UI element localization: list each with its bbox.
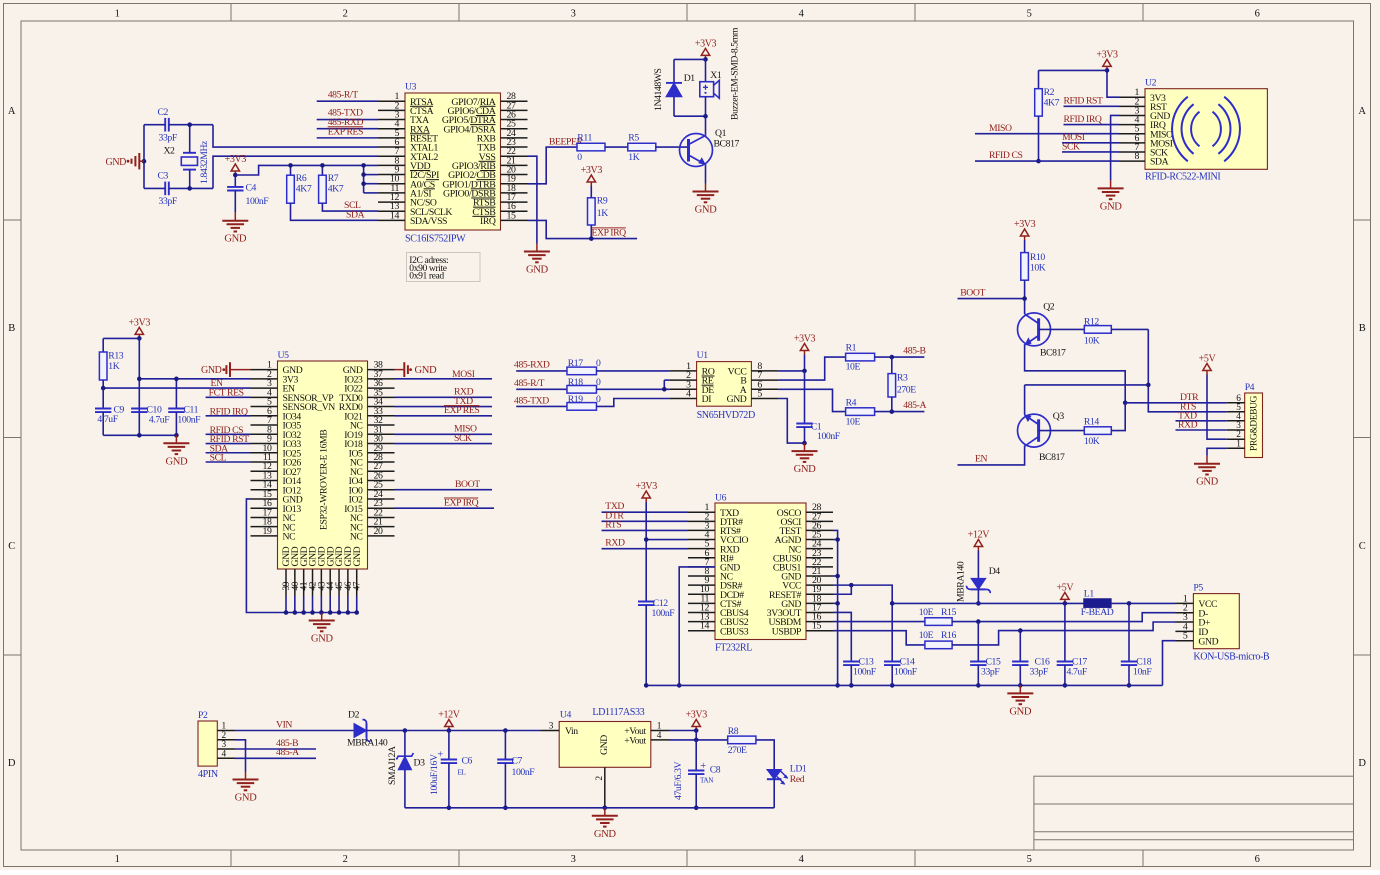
node bottom pin [310,610,315,615]
node C7 bottom [503,806,508,811]
P4 pins 6-1 [1227,402,1245,404]
wire RXD to P4 pin3 [1176,429,1227,431]
wire U5 bottom pin drop [294,596,296,613]
node bottom pin [354,610,359,615]
svg-text:1: 1 [115,854,120,865]
node D4 rail [976,601,981,606]
node bottom pin [337,610,342,615]
U4 pin4 +Vout [651,739,669,741]
wire RFID_IRQ to U5 pin6 [206,415,251,417]
svg-text:100nF: 100nF [894,667,918,678]
svg-text:Q2: Q2 [1043,302,1055,313]
svg-text:270E: 270E [728,745,747,756]
svg-text:VIN: VIN [276,719,292,730]
node D3 top [403,728,408,733]
wire SCK from U5 pin30 [395,443,493,445]
svg-text:485-R/T: 485-R/T [328,89,359,100]
svg-text:0x91 read: 0x91 read [409,271,444,282]
svg-text:RFID IRQ: RFID IRQ [1064,114,1102,125]
svg-text:RTS: RTS [605,519,621,530]
power +12V at C6 [448,727,450,731]
svg-text:15: 15 [812,621,821,632]
svg-text:GND: GND [695,205,718,216]
svg-text:+3V3: +3V3 [794,334,816,345]
wire R5 to Q1 base [655,146,688,148]
svg-text:10E: 10E [846,417,861,428]
power +3V3 at R10 [1024,236,1026,240]
svg-text:Q3: Q3 [1053,411,1065,422]
wire P5 GND pin5 to bus [1163,641,1176,686]
svg-text:C8: C8 [710,765,721,776]
svg-text:R6: R6 [296,173,307,184]
wire R4 to 485-A [875,411,925,413]
wire 485-RXD to U3 pin4 [317,128,378,130]
svg-text:U5: U5 [278,350,290,361]
wire FCT_RES to U5 pin4 [206,396,251,398]
svg-text:100nF: 100nF [177,414,201,425]
wire top rail crystal [144,124,165,126]
U5 bottom pins 39-47 GND [285,569,287,596]
wire P4 pin1 to ground [1207,448,1227,455]
capacitor C3 [164,182,166,196]
svg-text:47: 47 [353,581,363,590]
node C7 top [503,728,508,733]
wire U6 GND pin7 drop [679,567,715,686]
svg-text:10E: 10E [919,630,934,641]
ground below C1 [804,443,806,451]
svg-text:BC817: BC817 [1039,452,1065,463]
node C8 bottom [694,806,699,811]
svg-text:BC817: BC817 [714,138,740,149]
svg-text:2: 2 [343,9,348,20]
svg-text:10K: 10K [1030,263,1046,274]
svg-text:SMAJ12A: SMAJ12A [387,746,398,785]
resistor R18 0 [567,386,597,394]
wire bottom rail crystal [144,187,165,189]
svg-text:GND: GND [526,265,549,276]
wire RFID_CS to U5 pin8 [206,433,251,435]
ground below U3 VSS [536,244,538,252]
svg-text:R5: R5 [628,132,639,143]
power +3V3 at X1 [705,55,707,59]
svg-text:EXP RES: EXP RES [444,405,479,416]
svg-text:BC817: BC817 [1040,348,1066,359]
resistor R13 1K [102,338,104,352]
wire X1 to Q1 collector [705,116,707,134]
svg-text:10K: 10K [1084,436,1100,447]
svg-text:P5: P5 [1193,583,1203,594]
resistor R7 4K7 [321,165,323,176]
svg-text:EXP IRQ: EXP IRQ [592,227,627,238]
svg-text:NC: NC [283,532,296,543]
svg-text:1.8432MHz: 1.8432MHz [199,140,210,184]
wire 485-A stub [235,757,316,759]
wire EXP_RES from U5 pin33 [395,415,493,417]
transistor Q2 BC817 [1018,313,1051,346]
svg-text:10E: 10E [846,362,861,373]
svg-text:100nF: 100nF [853,667,877,678]
wire VDD bus to pins 9-11 [363,165,365,193]
svg-text:33pF: 33pF [159,196,178,207]
svg-text:D1: D1 [684,73,696,84]
svg-text:GND: GND [1100,201,1123,212]
svg-text:0: 0 [577,152,582,163]
node C12 bus [644,683,649,688]
svg-text:R10: R10 [1030,252,1046,263]
IC U4 LD1117AS33 body [559,722,651,768]
capacitor C1 100nF [804,371,806,424]
svg-text:R19: R19 [568,394,584,405]
wire MOSI from U5 pin37 [395,378,493,380]
wire +3V3 top rail to R13 [103,337,139,339]
svg-text:R15: R15 [941,607,957,618]
svg-text:EXP RES: EXP RES [328,126,363,137]
node bottom pin [328,610,333,615]
wire U3 VSS pin22 to ground [528,156,537,243]
svg-text:+12V: +12V [968,530,990,541]
wire U4 pin1 to +3V3 [669,730,696,732]
wire U1 VCC to +3V3 [778,370,804,372]
svg-text:100nF: 100nF [817,431,841,442]
connector P4 PRG&DEBUG body [1245,393,1263,458]
wire BOOT [958,298,1025,300]
node VDD tap [361,163,366,168]
svg-text:PRG&DEBUG: PRG&DEBUG [1250,395,1260,451]
svg-text:C7: C7 [512,756,523,767]
node C11 top [174,377,179,382]
node out pin4 [694,738,699,743]
wire bypass ground rail [103,434,176,436]
wire Q1 emitter to ground [705,166,707,184]
wire U2 GND pin3 [1111,115,1119,180]
node R13 EN [101,386,106,391]
wire crystal vertical [189,125,191,153]
node C11 bottom [174,433,179,438]
svg-text:1: 1 [115,9,120,20]
wire +5V to P4 pin2 [1207,375,1227,440]
svg-text:C4: C4 [246,183,257,194]
wire U5 bottom GND bus [286,612,357,614]
wire R16 to P5 D+ [952,622,1175,645]
power +3V3 at U1 VCC [804,351,806,355]
node U1 VCC [802,369,807,374]
capacitor C10 4.7uF [131,408,147,410]
svg-text:R8: R8 [728,726,739,737]
U1 right pins 8-5 [751,370,778,372]
svg-text:100nF: 100nF [246,196,270,207]
wire U5 bottom pin drop [347,596,349,613]
capacitor C4 [234,175,236,187]
svg-text:+3V3: +3V3 [225,154,247,165]
wire R19 to U1 pin4 [596,399,669,407]
svg-text:C: C [1359,541,1366,552]
wire U5 pin15 GND to bottom bus [246,499,286,613]
node R3 bottom [890,409,895,414]
wire 485-B stub [235,748,316,750]
node GND18 [835,601,840,606]
P2 pins 1-4 [217,730,235,732]
wire XTAL1 from crystal to U3 pin6 [213,125,378,147]
U4 pin3 Vin [541,730,560,732]
wire SCL to U5 pin11 [206,461,251,463]
svg-text:A: A [1358,106,1366,117]
svg-text:10E: 10E [919,607,934,618]
wire buzzer top rail [674,58,706,60]
svg-text:L1: L1 [1084,589,1095,600]
node R6 top [288,163,293,168]
wire P2 pin2 to ground [235,740,246,772]
svg-text:LD1117AS33: LD1117AS33 [592,707,644,718]
node C6 bottom [447,806,452,811]
wire TXD to P4 pin4 [1176,420,1227,422]
capacitor C6 100uF EL [448,731,450,760]
buzzer X1 [705,59,707,81]
node +3V3 C4 [233,173,238,178]
svg-text:X1: X1 [710,70,722,81]
svg-text:5: 5 [1027,9,1032,20]
resistor R4 10E [846,408,875,416]
wire U5 bottom pin drop [303,596,305,613]
svg-text:D2: D2 [348,710,360,721]
node crystal bottom [187,186,192,191]
wire GND18 tap [833,602,838,604]
svg-text:R18: R18 [568,377,584,388]
diode D1 1N4148WS [673,59,675,83]
svg-text:485-TXD: 485-TXD [514,396,549,407]
wire MISO to U2 pin5 [975,133,1119,135]
wire U1 A to R4 [778,389,845,411]
svg-text:RFID-RC522-MINI: RFID-RC522-MINI [1145,172,1220,183]
svg-text:R14: R14 [1084,417,1100,428]
ground below Q1 [705,184,707,192]
wire SCK to U2 pin7 [1062,151,1119,153]
wire Q3 collector line [1025,384,1149,386]
node C15 top [976,619,981,624]
node gnd riser bus [835,683,840,688]
node crystal gnd [142,159,147,164]
svg-text:+Vout: +Vout [624,736,646,747]
wire +3V3 stem U1 [804,355,806,371]
node +3V3 R13 [137,336,142,341]
svg-text:RXD: RXD [605,538,625,549]
U1 left pins 1-4 [670,370,697,372]
wire 485-TXD to R19 [516,405,567,407]
node X1 bottom [703,114,708,119]
svg-text:4: 4 [657,731,662,741]
svg-text:1N4148WS: 1N4148WS [653,68,664,111]
wire U5 bottom pin drop [329,596,331,613]
svg-text:5: 5 [1183,631,1188,642]
svg-text:GND: GND [599,735,610,755]
svg-text:1K: 1K [628,152,639,163]
svg-text:U1: U1 [697,350,709,361]
svg-text:EN: EN [975,454,988,465]
svg-text:100nF: 100nF [512,767,536,778]
U2 pins 1-8 [1119,96,1145,98]
svg-text:+12V: +12V [438,710,460,721]
wire RFID_IRQ to U2 pin4 [1064,124,1120,126]
connector P2 4PIN body [198,721,217,766]
wire U3 IRQ pin15 to EXP_IRQ [528,220,638,238]
svg-text:3: 3 [571,854,576,865]
svg-text:4.7uF: 4.7uF [149,414,170,425]
wire RESET# tie to VCC [833,585,851,594]
svg-text:C: C [8,541,15,552]
wire 485-TXD to U3 pin3 [317,119,378,121]
svg-text:R17: R17 [568,358,584,369]
svg-text:485-A: 485-A [276,747,299,758]
svg-text:+3V3: +3V3 [686,710,708,721]
wire RFID_RST to U5 pin9 [206,443,251,445]
svg-text:SN65HVD72D: SN65HVD72D [697,410,755,421]
svg-text:0: 0 [596,377,601,388]
wire +3V3 to VDD [235,165,378,175]
ground below U4 [604,808,606,816]
power +5V at P4 [1206,371,1208,375]
capacitor C8 47uF TAN [688,770,704,772]
inductor L1 F-BEAD [1084,599,1111,608]
svg-text:LD1: LD1 [790,763,807,774]
node bottom pin [319,610,324,615]
wire +3V3 down to C8 [695,731,697,771]
wire 485-R/T to R18 [516,388,567,390]
diode D4 MBRA140 [977,551,979,579]
capacitor C2 [164,118,166,132]
svg-text:U3: U3 [405,82,417,93]
svg-text:SDA: SDA [346,209,365,220]
svg-text:SCK: SCK [454,433,472,444]
svg-text:4.7uF: 4.7uF [97,414,118,425]
U4 pin1 +Vout [651,730,669,732]
wire 3V3 to U5 pin2 [139,378,250,380]
node AGND [835,537,840,542]
node C18 rail [1127,601,1132,606]
wire buzzer bottom rail [674,115,706,117]
wire +3V3 to U2 pin1 [1107,70,1119,97]
svg-text:6: 6 [1255,854,1260,865]
svg-text:GND: GND [106,157,127,168]
power +3V3 at U4 out [695,727,697,731]
svg-text:EL: EL [458,769,466,777]
svg-text:C6: C6 [462,756,473,767]
wire TXD to U6 pin1 [602,511,689,513]
power-bar GND at U5 pin38 [395,369,405,371]
svg-text:2: 2 [595,776,605,781]
wire AGND tap [833,539,838,541]
svg-text:33pF: 33pF [159,133,178,144]
svg-text:NC: NC [350,532,363,543]
wire Q3 emitter to EN [958,447,1025,465]
resistor R2 4K7 [1038,70,1040,88]
svg-text:RFID RST: RFID RST [1064,96,1104,107]
svg-text:SDA/VSS: SDA/VSS [410,216,447,227]
svg-text:R16: R16 [941,630,957,641]
wire R14 to DTR net [1111,403,1125,431]
capacitor C9 4.7uF [102,388,104,408]
svg-text:RFID CS: RFID CS [989,150,1023,161]
node C10 bottom [137,433,142,438]
node U1 GND [802,441,807,446]
wire BOOT from U5 pin25 [395,489,493,491]
node C13 bus [849,683,854,688]
wire RTS riser [1148,329,1226,411]
resistor R11 0 [577,143,605,151]
svg-text:5: 5 [1027,854,1032,865]
capacitor C13 100nF on 3V3OUT [833,612,851,661]
U3 left pins 1-14 [378,100,405,102]
wire R2 top rail [1039,69,1108,71]
svg-text:33pF: 33pF [981,667,1000,678]
wire DTR to U6 pin2 [602,520,689,522]
wire RFID_CS to U2 pin8 [975,160,1119,162]
node C17 bus [1063,683,1068,688]
power +5V at rail [1064,599,1066,603]
resistor R15 10E [925,618,952,626]
connector P5 KON-USB-micro-B body [1193,594,1239,649]
svg-text:GND: GND [235,793,258,804]
diode D2 MBRA140 [354,724,367,738]
svg-text:B: B [1359,323,1366,334]
node VCCIO [644,537,649,542]
wire BEEPER riser from U3 pin19 [528,147,578,184]
wire U5 bottom pin drop [320,596,322,613]
node R2 rail [1105,68,1110,73]
svg-text:4K7: 4K7 [1044,98,1060,109]
wire RXD from U5 pin35 [395,396,493,398]
wire R18 to U1 pin3 and pin2 [596,388,669,390]
svg-text:GND: GND [1196,477,1219,488]
wire USBDP from U6 pin15 [833,631,925,645]
node +5V C17 [1063,601,1068,606]
svg-text:RXD: RXD [1178,420,1198,431]
U4 pin2 GND stub [604,767,606,808]
ground below P4 [1206,456,1208,464]
svg-text:4.7uF: 4.7uF [1067,667,1088,678]
wire +5V rail [892,602,1084,604]
svg-text:BOOT: BOOT [960,287,985,298]
IC U5 ESP32-WROVER-E body [278,361,368,569]
svg-text:+3V3: +3V3 [1096,49,1118,60]
capacitor C7 100nF [504,731,506,760]
node +3V3 out [694,728,699,733]
node bottom pin [293,610,298,615]
wire VIN to D2 [235,730,354,732]
wire DTR line to P4 pin6 [1125,402,1227,404]
node Q3 collector net [1146,383,1151,388]
node C16 bus [1018,683,1023,688]
svg-text:R12: R12 [1084,317,1100,328]
svg-text:GND: GND [352,546,363,566]
diode D3 SMAJ12A TVS [404,731,406,757]
wire USBDM from U6 pin16 [833,621,925,623]
svg-text:MISO: MISO [989,123,1012,134]
svg-text:6: 6 [1255,9,1260,20]
resistor R17 0 [567,367,597,375]
svg-text:U4: U4 [560,710,572,721]
wire TEST/AGND ground riser [833,530,838,685]
node RE/DE tie [662,387,667,392]
svg-text:100uF/16V: 100uF/16V [429,754,440,795]
resistor R9 1K [590,186,592,198]
svg-text:485-A: 485-A [903,400,926,411]
svg-text:USBDP: USBDP [772,626,801,637]
U5 left pins 1-19 [251,369,278,371]
ground below C4 [234,213,236,221]
capacitor C17 4.7uF [1064,603,1066,661]
power +3V3 at R13 [138,334,140,338]
svg-text:47uF/6.3V: 47uF/6.3V [673,761,684,800]
svg-text:R11: R11 [577,132,592,143]
